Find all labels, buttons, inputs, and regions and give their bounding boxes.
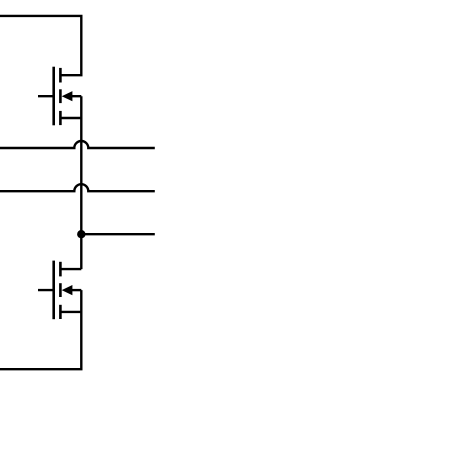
wire input 2 with hop over vertical	[0, 184, 155, 191]
gate lead	[38, 289, 55, 291]
wire top rail from left edge to drain of Q1	[0, 16, 81, 75]
wire body-source tie of Q1 down to drain of Q2	[80, 96, 82, 269]
transistor Q1 (NMOS, top)	[38, 67, 81, 126]
channel segment drain	[59, 262, 62, 277]
channel segment source	[59, 111, 62, 125]
channel segment drain	[59, 68, 62, 83]
channel segment body	[59, 283, 62, 297]
source stub	[60, 117, 81, 119]
wire input 1 with hop over vertical	[0, 141, 155, 148]
body arrow	[62, 285, 73, 295]
channel segment body	[59, 89, 62, 103]
wire output tap	[81, 233, 155, 235]
gate lead	[38, 95, 55, 97]
body arrow	[62, 91, 73, 101]
body stub	[72, 95, 82, 97]
gate bar	[52, 261, 55, 320]
drain stub	[60, 268, 81, 270]
node junction dot	[77, 230, 85, 238]
gate bar	[52, 67, 55, 126]
transistor Q2 (NMOS, bottom)	[38, 261, 81, 320]
body stub	[72, 289, 82, 291]
channel segment source	[59, 305, 62, 319]
wire source of Q2 down and left to edge	[0, 290, 81, 369]
source stub	[60, 311, 81, 313]
